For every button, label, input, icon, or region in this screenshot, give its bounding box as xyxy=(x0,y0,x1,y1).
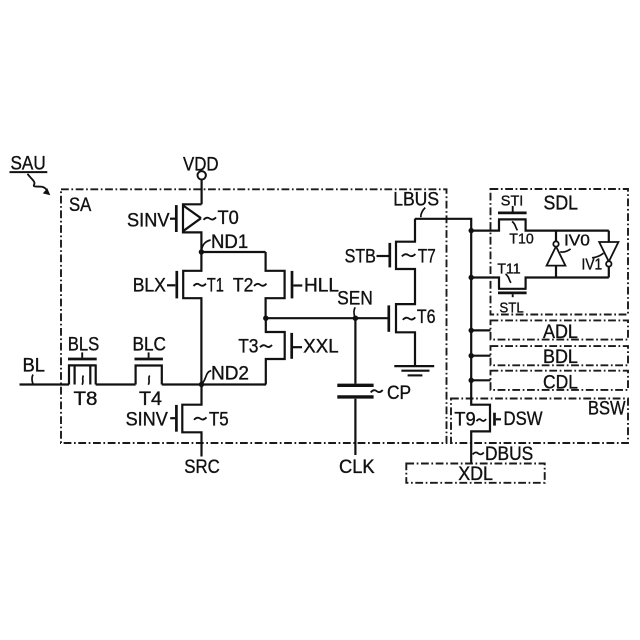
svg-text:BL: BL xyxy=(23,355,46,377)
svg-text:SEN: SEN xyxy=(337,288,373,310)
svg-text:T3: T3 xyxy=(238,335,258,357)
svg-text:DSW: DSW xyxy=(504,408,544,430)
svg-text:XXL: XXL xyxy=(303,336,338,358)
svg-text:STL: STL xyxy=(499,299,523,316)
svg-text:SINV: SINV xyxy=(127,209,170,231)
svg-text:HLL: HLL xyxy=(304,274,339,296)
svg-text:T4: T4 xyxy=(139,388,162,410)
svg-text:STB: STB xyxy=(345,246,376,268)
svg-text:T7: T7 xyxy=(418,245,436,267)
svg-text:T1: T1 xyxy=(207,275,224,297)
svg-text:BSW: BSW xyxy=(588,397,626,419)
svg-text:STI: STI xyxy=(501,193,524,210)
svg-text:SRC: SRC xyxy=(184,456,220,478)
svg-text:VDD: VDD xyxy=(183,153,219,175)
svg-text:CLK: CLK xyxy=(339,456,375,478)
svg-text:T6: T6 xyxy=(417,306,436,328)
svg-text:BLC: BLC xyxy=(133,333,167,355)
svg-text:T8: T8 xyxy=(74,388,98,410)
svg-text:ADL: ADL xyxy=(543,321,578,343)
svg-text:CDL: CDL xyxy=(543,371,578,393)
svg-text:ND1: ND1 xyxy=(211,231,248,253)
svg-text:T5: T5 xyxy=(209,408,229,430)
svg-text:XDL: XDL xyxy=(458,463,493,485)
svg-text:BDL: BDL xyxy=(543,346,578,368)
svg-text:T9: T9 xyxy=(454,408,476,430)
svg-text:IV1: IV1 xyxy=(582,257,603,274)
svg-text:LBUS: LBUS xyxy=(393,188,439,210)
svg-text:DBUS: DBUS xyxy=(485,443,533,465)
svg-text:IV0: IV0 xyxy=(564,232,590,249)
svg-text:T10: T10 xyxy=(509,230,533,247)
svg-text:ND2: ND2 xyxy=(211,362,249,384)
svg-text:CP: CP xyxy=(387,382,411,404)
svg-text:T2: T2 xyxy=(233,275,254,297)
svg-text:SA: SA xyxy=(69,194,91,216)
svg-text:T0: T0 xyxy=(218,207,239,229)
svg-text:BLX: BLX xyxy=(133,274,166,296)
svg-text:SDL: SDL xyxy=(544,192,579,214)
svg-text:SAU: SAU xyxy=(11,152,46,174)
svg-text:T11: T11 xyxy=(497,260,521,277)
svg-text:SINV: SINV xyxy=(126,408,168,430)
svg-text:BLS: BLS xyxy=(68,333,100,355)
